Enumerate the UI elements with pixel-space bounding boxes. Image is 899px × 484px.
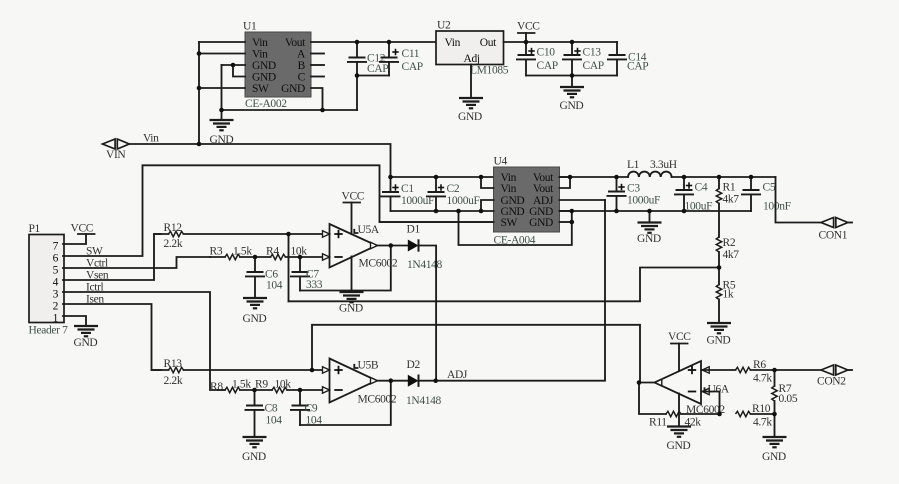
- wire U6A plus to R6: [702, 369, 736, 371]
- svg-text:GND: GND: [243, 313, 267, 325]
- ground C6: [243, 298, 268, 325]
- svg-text:U4: U4: [494, 156, 508, 168]
- svg-text:R13: R13: [164, 358, 183, 370]
- svg-text:6: 6: [53, 252, 59, 264]
- svg-text:GND: GND: [458, 111, 482, 123]
- connector CON1: [819, 218, 853, 242]
- svg-text:U5B: U5B: [358, 360, 379, 372]
- svg-text:Vctrl: Vctrl: [86, 258, 108, 270]
- pin arrow U5B output: [371, 378, 378, 384]
- resistor R1 4k7: [716, 177, 739, 237]
- pin arrow U5A output: [371, 242, 378, 248]
- wire R8 to R9: [240, 389, 272, 391]
- connector P1 Header 7: [29, 223, 69, 337]
- connector VIN: [103, 139, 130, 161]
- ground U5A: [339, 257, 364, 315]
- wire C13 gnd drop: [571, 76, 573, 88]
- svg-text:CAP: CAP: [583, 60, 604, 72]
- op-amp U5B MC6002: [330, 359, 397, 406]
- wire R7 R10 junction to gnd: [774, 414, 776, 437]
- wire U1 GND4 jog: [233, 65, 245, 77]
- svg-text:VIN: VIN: [106, 149, 126, 161]
- resistor R7 0.05: [772, 370, 798, 414]
- ground U2 Adj: [458, 98, 483, 123]
- svg-text:U2: U2: [437, 20, 451, 32]
- svg-text:Vout: Vout: [533, 183, 554, 195]
- svg-text:GND: GND: [762, 451, 786, 463]
- resistor R12 2.2k: [154, 222, 323, 250]
- wire U1 pin C stub: [311, 76, 324, 78]
- svg-text:4.7k: 4.7k: [753, 373, 772, 385]
- wire U4 Vin1-Vin2 tie: [481, 177, 494, 188]
- capacitor C11 polarized: [379, 42, 423, 76]
- svg-text:C10: C10: [537, 47, 556, 59]
- svg-text:Vin: Vin: [252, 37, 268, 49]
- svg-text:B: B: [298, 60, 306, 72]
- svg-text:GND: GND: [707, 335, 731, 347]
- svg-text:10k: 10k: [275, 379, 292, 391]
- wire U4 SW pin: [380, 221, 494, 223]
- svg-text:2.2k: 2.2k: [164, 238, 183, 250]
- svg-text:2.2k: 2.2k: [164, 375, 183, 387]
- wire U1 pin A stub: [311, 53, 324, 55]
- diode D2 1N4148: [406, 359, 442, 407]
- svg-text:Vin: Vin: [143, 133, 159, 145]
- svg-text:ADJ: ADJ: [447, 369, 468, 381]
- svg-text:GND: GND: [560, 100, 584, 112]
- svg-text:GND: GND: [242, 451, 266, 463]
- capacitor C10 polarized: [516, 42, 558, 76]
- svg-text:VCC: VCC: [668, 331, 691, 343]
- svg-text:CAP: CAP: [537, 60, 558, 72]
- svg-text:Vin: Vin: [252, 49, 268, 61]
- pin arrow U5B plus input: [323, 367, 330, 373]
- resistor R9 10k: [255, 379, 323, 393]
- svg-text:2: 2: [53, 300, 59, 312]
- capacitor C8 104: [245, 390, 283, 437]
- svg-text:Isen: Isen: [86, 294, 104, 306]
- capacitor C2 1000uF: [426, 177, 480, 211]
- power VCC at U6A: [668, 331, 691, 371]
- svg-text:SW: SW: [86, 246, 103, 258]
- wire U4 ADJ pin right: [560, 199, 606, 201]
- svg-text:4.7k: 4.7k: [753, 417, 772, 429]
- wire P1 pin7 to VCC: [63, 234, 86, 244]
- wire U1 pin B stub: [311, 64, 324, 66]
- capacitor C6 104: [245, 257, 283, 298]
- wire feedback to R2-R5 junction: [289, 268, 720, 302]
- svg-text:Vsen: Vsen: [86, 270, 109, 282]
- svg-text:1N4148: 1N4148: [407, 259, 443, 271]
- svg-text:GND: GND: [74, 337, 98, 349]
- svg-text:C2: C2: [447, 183, 460, 195]
- svg-text:333: 333: [306, 279, 323, 291]
- svg-text:Vin: Vin: [445, 37, 461, 49]
- wire U2 Out to C14: [504, 41, 618, 43]
- svg-text:4k7: 4k7: [723, 194, 740, 206]
- wire U1 bottom gnd rail y110: [222, 109, 358, 111]
- svg-text:GND: GND: [281, 83, 305, 95]
- svg-text:GND: GND: [637, 233, 661, 245]
- svg-text:4k7: 4k7: [723, 249, 740, 261]
- wire output jog to CON1: [776, 177, 822, 223]
- wire input rail to U4 Vin: [391, 176, 482, 178]
- regulator U1 CE-A002: [243, 21, 311, 111]
- wire U6A minus jog down: [702, 392, 720, 415]
- resistor R11 42k: [649, 411, 720, 428]
- wire U1 SW left: [199, 87, 245, 89]
- ground C13: [560, 87, 585, 112]
- svg-text:GND: GND: [252, 60, 276, 72]
- svg-text:1k: 1k: [723, 289, 734, 301]
- wire P1 pin3 Ictrl: [63, 292, 218, 390]
- svg-text:100nF: 100nF: [763, 201, 791, 213]
- svg-text:CON2: CON2: [817, 376, 846, 388]
- svg-text:A: A: [297, 49, 306, 61]
- svg-text:1000uF: 1000uF: [627, 195, 660, 207]
- resistor R8 1.5k: [210, 379, 251, 394]
- wire U4 gnd loop under chip: [459, 211, 572, 245]
- svg-text:C4: C4: [695, 182, 708, 194]
- pin arrow U6A minus input: [702, 388, 709, 394]
- svg-text:C: C: [298, 72, 306, 84]
- wire U5A plus feedback down: [288, 234, 290, 301]
- svg-text:CAP: CAP: [627, 61, 648, 73]
- svg-text:C13: C13: [583, 47, 602, 59]
- ground mid rail: [637, 211, 662, 245]
- wire U4 GND5 right: [560, 221, 572, 223]
- pin arrow U6A output: [655, 379, 662, 385]
- op-amp U6A MC6002: [655, 361, 730, 416]
- resistor R13 2.2k: [152, 358, 323, 387]
- svg-text:100uF: 100uF: [685, 201, 713, 213]
- svg-text:42k: 42k: [685, 417, 702, 429]
- svg-text:R4: R4: [266, 246, 279, 258]
- wire U6A output to R11: [639, 383, 666, 415]
- svg-text:U5A: U5A: [358, 224, 380, 236]
- svg-text:D2: D2: [407, 359, 421, 371]
- svg-text:GND: GND: [529, 217, 553, 229]
- svg-text:R8: R8: [210, 381, 223, 393]
- svg-text:R2: R2: [723, 237, 736, 249]
- svg-text:CON1: CON1: [819, 230, 848, 242]
- wire U4 Vout rail to output: [560, 176, 629, 178]
- power VCC at U2 out: [517, 21, 540, 43]
- capacitor C9 104: [290, 390, 322, 427]
- svg-text:C1: C1: [401, 183, 414, 195]
- svg-text:3: 3: [53, 288, 59, 300]
- wire U1 Vin1 left: [199, 41, 245, 43]
- wire U4 Vout1-Vout2 tie: [560, 177, 571, 188]
- svg-text:Header 7: Header 7: [29, 325, 69, 337]
- wire P1 pin5 Vctrl: [63, 257, 210, 268]
- resistor R4 10k: [266, 246, 323, 260]
- wire C10-C13-C14 bottom rail: [526, 75, 617, 77]
- pin tick U6A: [705, 388, 708, 391]
- wire vertical input bus x199: [198, 42, 200, 144]
- wire U5B output to D2: [377, 380, 408, 382]
- regulator U4 CE-A004: [494, 156, 560, 247]
- capacitor C7 333: [290, 257, 323, 291]
- wire P1 pin2 Isen: [63, 304, 161, 370]
- svg-text:R10: R10: [752, 403, 771, 415]
- svg-text:L1: L1: [627, 159, 640, 171]
- svg-text:1N4148: 1N4148: [406, 395, 442, 407]
- capacitor C12: [347, 42, 388, 110]
- wire gnd rail left of U4: [391, 210, 494, 212]
- wire C9 feedback to U5B output: [300, 381, 391, 425]
- svg-text:VCC: VCC: [517, 21, 540, 33]
- wire P1 pin4 Vsen: [63, 234, 161, 280]
- svg-text:104: 104: [266, 280, 283, 292]
- svg-text:C5: C5: [763, 182, 776, 194]
- power VCC at U5A: [342, 191, 365, 235]
- pin tick U5A: [354, 230, 357, 233]
- svg-text:R11: R11: [649, 417, 667, 429]
- capacitor C13 polarized: [562, 42, 604, 76]
- svg-text:1: 1: [53, 312, 59, 324]
- svg-text:Out: Out: [480, 37, 497, 49]
- svg-text:D1: D1: [407, 224, 421, 236]
- wire U1 Vin2 left: [199, 53, 245, 55]
- ground P1: [74, 326, 99, 349]
- wire C7 feedback to U5A output: [300, 246, 391, 291]
- wire U4 GND4 right: [560, 210, 572, 212]
- wire D2 cathode ADJ net to U4: [419, 200, 606, 381]
- wire gnd rail right of U4: [560, 210, 752, 212]
- svg-text:C3: C3: [627, 183, 640, 195]
- wire U1 gnd vertical x221.5: [221, 65, 223, 110]
- wire U5A output to D1: [377, 245, 408, 247]
- ground U6A: [667, 394, 692, 453]
- svg-text:R3: R3: [210, 246, 223, 258]
- svg-text:VCC: VCC: [342, 191, 365, 203]
- wire U4 GND1 jog: [481, 200, 494, 211]
- svg-text:3.3uH: 3.3uH: [650, 159, 677, 171]
- resistor R5 1k: [716, 268, 736, 324]
- capacitor C5 100nF: [741, 177, 791, 213]
- svg-text:104: 104: [266, 415, 283, 427]
- svg-text:Vin: Vin: [501, 183, 517, 195]
- svg-text:C8: C8: [265, 403, 278, 415]
- svg-text:C9: C9: [305, 403, 318, 415]
- svg-text:1.5k: 1.5k: [233, 246, 252, 258]
- svg-text:LM1085: LM1085: [470, 65, 509, 77]
- svg-text:7: 7: [53, 240, 59, 252]
- capacitor C3 1000uF: [607, 177, 661, 211]
- wire R3 to R4: [240, 256, 271, 258]
- svg-text:R1: R1: [723, 182, 736, 194]
- svg-text:MC6002: MC6002: [359, 258, 398, 270]
- capacitor C14: [607, 42, 648, 76]
- svg-text:GND: GND: [667, 440, 691, 452]
- wire U1 Vout to U2: [311, 41, 436, 43]
- svg-text:5: 5: [53, 264, 59, 276]
- wire VIN to buck input: [129, 144, 390, 177]
- inductor L1 3.3uH: [627, 159, 677, 177]
- capacitor C4 100uF: [674, 177, 712, 213]
- ground R7 R10: [762, 437, 787, 463]
- svg-text:VCC: VCC: [71, 223, 94, 235]
- power VCC at P1: [71, 223, 95, 235]
- svg-text:4: 4: [53, 276, 59, 288]
- ground U1: [210, 110, 234, 146]
- pin arrow U5A plus input: [323, 231, 330, 237]
- wire C12-C11 bottom link y75.5: [357, 75, 389, 77]
- svg-text:Ictrl: Ictrl: [86, 282, 104, 294]
- resistor R10 4.7k: [736, 403, 775, 429]
- op-amp U5A MC6002: [330, 224, 398, 270]
- ground C8: [242, 437, 267, 463]
- svg-text:CAP: CAP: [402, 61, 423, 73]
- pin arrow U5A minus input: [323, 254, 330, 260]
- ground R5: [707, 323, 732, 347]
- pin arrow U5B minus input: [323, 387, 330, 393]
- regulator U2 LM1085: [436, 20, 509, 77]
- resistor R2 4k7: [716, 237, 739, 268]
- wire U1 GND3 left: [222, 64, 246, 66]
- wire U5B plus sense from current loop: [312, 325, 640, 383]
- wire D1 cathode down to ADJ net: [419, 246, 437, 381]
- svg-text:CAP: CAP: [367, 63, 388, 75]
- svg-text:R9: R9: [255, 379, 268, 391]
- svg-text:R6: R6: [753, 359, 766, 371]
- svg-text:C11: C11: [402, 48, 420, 60]
- svg-text:CE-A002: CE-A002: [245, 98, 287, 110]
- svg-text:P1: P1: [29, 223, 41, 235]
- svg-text:U1: U1: [243, 21, 257, 33]
- connector CON2: [817, 365, 852, 388]
- pin tick U5B: [354, 365, 357, 368]
- wire U1 GND5 right down: [311, 88, 323, 110]
- resistor R6 4.7k: [736, 359, 822, 385]
- svg-text:1.5k: 1.5k: [232, 379, 251, 391]
- resistor R3 1.5k: [210, 246, 253, 260]
- svg-text:1000uF: 1000uF: [447, 195, 480, 207]
- wire P1 pin1 to gnd: [63, 316, 86, 326]
- svg-text:GND: GND: [339, 303, 363, 315]
- svg-text:Adj: Adj: [464, 53, 480, 65]
- svg-text:Vout: Vout: [285, 37, 306, 49]
- svg-text:SW: SW: [252, 83, 269, 95]
- svg-text:SW: SW: [501, 217, 518, 229]
- svg-text:0.05: 0.05: [779, 393, 798, 405]
- diode D1 1N4148: [407, 224, 443, 272]
- svg-text:R12: R12: [164, 222, 183, 234]
- wire P1 pin6 SW net: [63, 165, 494, 256]
- svg-text:GND: GND: [252, 72, 276, 84]
- wire U2 Adj down: [470, 65, 472, 99]
- svg-text:MC6002: MC6002: [358, 394, 397, 406]
- pin arrow U6A plus input: [702, 367, 709, 373]
- capacitor C1 1000uF: [381, 177, 435, 211]
